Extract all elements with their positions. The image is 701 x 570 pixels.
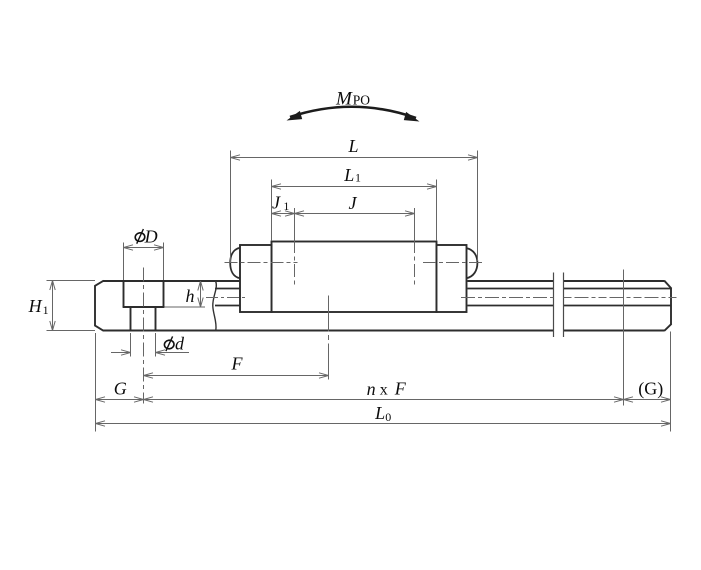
svg-text:L: L [343,165,354,185]
dimension phiD [124,243,164,281]
groove center line right [461,297,679,299]
second rail hole center line [328,296,330,382]
rail bottom edge left segment [103,330,553,332]
rail left end edge [94,286,96,326]
rail right bottom chamfer [664,324,671,331]
svg-text:F: F [231,354,244,374]
groove center line left [206,297,247,299]
svg-text:D: D [144,227,158,247]
svg-text:h: h [186,286,195,306]
dimension J [295,211,415,216]
svg-text:1: 1 [283,199,289,213]
svg-text:J: J [349,193,358,213]
nipple center line left [225,262,298,264]
svg-text:1: 1 [43,303,49,317]
nipple center line right [423,262,484,264]
dimension phid [111,333,189,357]
dimension L0 [96,421,671,426]
svg-text:M: M [335,88,353,109]
dimension h [165,281,206,307]
svg-text:J: J [272,193,281,213]
svg-text:0: 0 [385,410,391,424]
block hole center line left [294,208,296,286]
right grease nipple [467,248,478,278]
block hole center line right [414,208,416,286]
svg-text:F: F [394,379,407,399]
dimension L1 [272,180,437,242]
dimension (G) [624,332,671,432]
rail break line (wavy S) [213,281,217,331]
label n x F [367,379,407,400]
svg-text:x: x [380,381,388,398]
label phiD [135,227,158,247]
dimension n x F [144,397,624,402]
svg-text:d: d [175,334,185,354]
rail right top chamfer [664,281,671,289]
rail double break lines right [554,273,564,338]
svg-text:G: G [114,379,127,399]
hole center line phiD [143,268,145,404]
rail right end edge [670,288,672,324]
carriage right end plate [437,245,467,312]
rail top edge left segment [103,280,240,282]
rail left bottom chamfer [94,325,103,331]
label MPO [335,88,370,109]
rail body outline [94,281,671,331]
svg-text:n: n [367,379,376,399]
svg-text:1: 1 [355,171,361,185]
rail groove lines [215,289,672,306]
svg-text:L: L [374,403,385,423]
rail left top chamfer [94,281,103,287]
svg-text:H: H [28,296,43,316]
dimension L [231,151,478,263]
left grease nipple [230,248,240,279]
dimension G [96,333,144,432]
rail top edge right segment [564,280,665,282]
counterbore hole phiD [123,281,165,307]
label L0 [374,403,391,424]
dimension H1 [47,281,96,331]
last rail hole center line [623,270,625,406]
carriage left end plate [240,245,272,312]
hole phid [131,307,156,331]
rail top edge mid segment [468,280,554,282]
carriage block body [272,242,437,313]
svg-text:(G): (G) [638,378,663,399]
moment arrow MPO [290,107,416,118]
rail bottom edge right segment [564,330,665,332]
label phid [164,334,185,354]
label H1 [28,296,49,317]
svg-text:L: L [348,136,359,156]
dimension J1 [272,211,295,216]
svg-text:PO: PO [353,92,371,107]
dimension F [144,373,329,378]
